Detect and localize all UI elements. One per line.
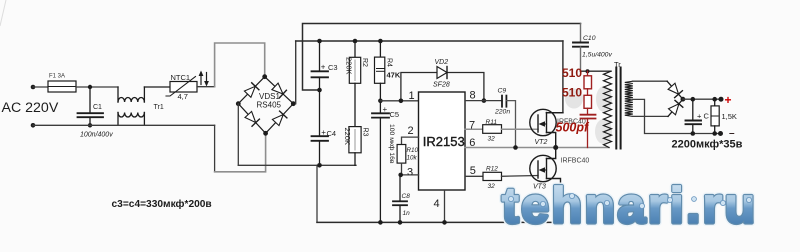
svg-text:VT2: VT2 — [535, 139, 548, 146]
svg-text:220n: 220n — [494, 109, 510, 116]
wire: pin8 + capacitor C9 — [465, 100, 502, 102]
node: cap midpoint — [317, 88, 322, 93]
svg-text:47K: 47K — [387, 71, 401, 80]
transformer core — [615, 68, 617, 149]
capacitor C1 — [78, 87, 104, 125]
wire: pin4 — [444, 190, 446, 222]
transistor VT2 — [530, 109, 563, 147]
svg-text:R10: R10 — [407, 147, 419, 154]
svg-text:R3: R3 — [362, 128, 369, 137]
svg-text:IR2153: IR2153 — [423, 134, 465, 149]
op chip IR2153 — [419, 92, 466, 190]
svg-text:C1: C1 — [93, 104, 102, 111]
svg-text:32: 32 — [488, 136, 496, 143]
svg-text:F1 3A: F1 3A — [49, 74, 65, 80]
snubber resistor 510 #1 — [584, 71, 592, 95]
svg-text:5: 5 — [470, 165, 476, 177]
svg-text:NTC1: NTC1 — [171, 73, 191, 82]
node: AC terminal bottom — [31, 123, 36, 128]
wire: node to primary top — [581, 70, 612, 72]
bridge diode left-bottom — [245, 111, 259, 126]
capacitor C10 — [573, 24, 588, 72]
wire: output minus rail — [693, 133, 721, 135]
svg-text:C10: C10 — [583, 35, 596, 42]
wire: pin3 — [400, 174, 419, 176]
svg-text:1: 1 — [409, 90, 415, 102]
wire: pin2 + resistor R10 — [397, 137, 418, 175]
svg-text:1,5K: 1,5K — [722, 112, 737, 121]
wire: NTC1 to riser — [197, 86, 215, 88]
svg-text:32: 32 — [488, 183, 496, 190]
svg-text:IRFBC40: IRFBC40 — [561, 158, 590, 165]
bridge diode bottom-right — [272, 111, 287, 126]
svg-text:R12: R12 — [486, 166, 498, 173]
wire: centre tap to minus rail — [633, 99, 693, 133]
svg-text:C9: C9 — [498, 88, 507, 95]
resistor R2 — [349, 41, 360, 127]
wire: secondary top end to D1 — [633, 80, 668, 82]
rectifier diode D2 — [668, 99, 683, 116]
wire: AC live to fuse — [33, 86, 48, 88]
svg-text:+: + — [383, 105, 388, 114]
transformer Tr primary — [604, 71, 612, 147]
svg-text:220K: 220K — [345, 57, 354, 75]
svg-text:C3: C3 — [328, 63, 338, 72]
svg-text:Tr1: Tr1 — [154, 104, 164, 111]
svg-text:500pf: 500pf — [556, 121, 590, 135]
node: C1 bottom junction — [88, 123, 92, 127]
wire: pin6 VS — [465, 147, 516, 149]
svg-text:VD2: VD2 — [435, 59, 449, 66]
svg-text:8: 8 — [470, 90, 476, 102]
svg-text:tehnari.ru: tehnari.ru — [502, 178, 758, 234]
wire: secondary bottom end to D2 — [633, 115, 669, 117]
transistor VT3 — [530, 148, 561, 223]
scan corner mark — [0, 0, 6, 26]
svg-text:4: 4 — [434, 198, 440, 210]
resistor R4 — [375, 41, 385, 101]
svg-text:RS405: RS405 — [257, 101, 282, 110]
wire: pin5 + resistor R12 — [465, 175, 483, 177]
snubber capacitor 500pf — [581, 115, 596, 148]
svg-text:–: – — [729, 128, 735, 139]
bridge VDS1 RS405 — [238, 77, 293, 134]
svg-text:220K: 220K — [343, 128, 352, 146]
capacitor C3 — [312, 41, 329, 136]
wire: rail drop to VT2 drain — [547, 41, 563, 113]
svg-text:R2: R2 — [361, 58, 368, 67]
bridge diode top-right — [272, 83, 287, 98]
wire: 0V link line — [238, 164, 356, 166]
svg-text:SF28: SF28 — [433, 82, 450, 89]
capacitor C8 — [393, 175, 407, 223]
svg-text:AC 220V: AC 220V — [2, 100, 59, 116]
svg-text:C4: C4 — [327, 129, 337, 138]
svg-text:10k: 10k — [407, 155, 418, 162]
wire: output plus rail — [683, 98, 721, 100]
snubber resistor 510 #2 — [584, 95, 592, 114]
svg-text:C5: C5 — [390, 110, 400, 119]
svg-text:R4: R4 — [386, 58, 393, 67]
wire: 0V drop to bottom rail — [316, 165, 318, 222]
svg-text:R11: R11 — [486, 119, 498, 126]
node: C1 top junction — [88, 85, 92, 89]
svg-text:100 мкф 16в: 100 мкф 16в — [388, 124, 395, 164]
wire: pin1 — [380, 100, 418, 102]
wire: neutral under-route to bridge bottom — [214, 125, 216, 172]
fuse F1 — [48, 81, 76, 92]
resistor R3 — [349, 127, 361, 166]
arrows up/down — [201, 73, 207, 85]
wire: live over-route to bridge top — [215, 43, 265, 87]
wire: +310V rail — [296, 40, 563, 42]
bridge diode left-top — [244, 83, 259, 98]
svg-text:510: 510 — [562, 66, 582, 80]
wire: bottom 0V rail — [317, 221, 561, 223]
svg-text:+: + — [321, 63, 326, 72]
bridge nodes — [262, 74, 267, 79]
choke Tr1 — [118, 87, 170, 125]
resistor 1,5K load — [711, 99, 719, 133]
svg-text:+ C: + C — [697, 112, 709, 121]
node: rectifier junction — [681, 97, 686, 102]
wire: bridge plus riser — [295, 41, 297, 104]
capacitor C4 — [312, 136, 329, 165]
svg-text:510: 510 — [562, 86, 582, 100]
thermistor NTC1 — [166, 77, 197, 97]
capacitor C output 2200mkf — [686, 99, 702, 133]
wire: pin7 + resistor R11 — [465, 128, 483, 130]
wire: top return rail to cap midpoint — [303, 24, 581, 91]
svg-text:100n/400v: 100n/400v — [80, 132, 113, 139]
rectifier diode D1 — [667, 81, 683, 99]
diode VD2 bootstrap loop — [401, 73, 484, 101]
svg-text:1n: 1n — [403, 210, 411, 217]
wire: AC neutral bottom rail — [33, 124, 215, 126]
output terminals — [719, 97, 724, 102]
wire: bridge minus drop — [237, 104, 239, 166]
svg-text:2200мкф*35в: 2200мкф*35в — [672, 138, 743, 150]
svg-text:с3=с4=330мкф*200в: с3=с4=330мкф*200в — [112, 198, 212, 210]
svg-text:1,5u/400v: 1,5u/400v — [582, 52, 612, 59]
gray smudges — [565, 86, 612, 144]
svg-text:4,7: 4,7 — [178, 92, 188, 101]
transformer Tr secondary — [625, 81, 633, 116]
capacitor C5 column — [372, 101, 389, 223]
svg-text:3: 3 — [407, 167, 413, 179]
svg-text:2: 2 — [408, 125, 414, 137]
watermark tehnari.ru — [502, 178, 758, 234]
node: AC terminal top — [31, 85, 36, 90]
svg-text:C8: C8 — [402, 193, 411, 200]
wire: fuse to choke — [76, 86, 118, 88]
svg-text:+: + — [725, 93, 732, 107]
